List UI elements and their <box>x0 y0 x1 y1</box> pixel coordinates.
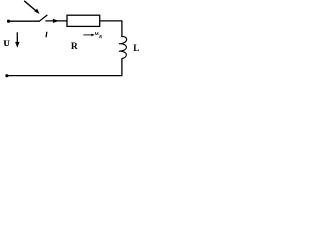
node A (top-left terminal dot) <box>7 20 10 23</box>
svg-text:U: U <box>4 38 10 48</box>
node B (bottom-left terminal dot) <box>5 74 8 77</box>
switch closing arrow <box>24 1 39 14</box>
resistor R (box) <box>67 15 100 26</box>
label R subscript (of u_R) <box>100 35 102 38</box>
label i <box>45 32 47 37</box>
voltage arrow u_R <box>83 34 94 37</box>
wire inductor bottom vertical <box>121 58 123 76</box>
wire resistor to top-right corner <box>100 20 123 22</box>
svg-text:L: L <box>133 43 139 53</box>
svg-text:R: R <box>71 42 78 52</box>
switch S blade <box>39 15 48 22</box>
label u (of u_R) <box>95 32 98 34</box>
wire bottom horizontal <box>7 75 123 77</box>
wire right vertical down to inductor <box>121 21 123 37</box>
inductor L coil <box>119 37 127 59</box>
current direction arrowhead i <box>53 19 59 23</box>
wire switch right contact to resistor <box>45 20 66 22</box>
wire top-left horizontal to switch pivot <box>9 20 40 22</box>
source voltage arrow U (down) <box>15 32 19 47</box>
